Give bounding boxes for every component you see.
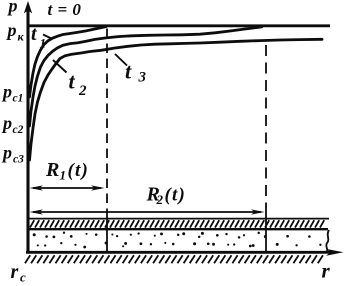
svg-text:1: 1 bbox=[60, 168, 67, 183]
svg-text:t: t bbox=[69, 69, 76, 94]
svg-text:(t): (t) bbox=[68, 160, 90, 181]
svg-text:p: p bbox=[1, 143, 12, 163]
svg-text:p: p bbox=[6, 20, 17, 40]
svg-text:с2: с2 bbox=[13, 124, 24, 136]
svg-text:p: p bbox=[1, 82, 12, 102]
svg-text:1: 1 bbox=[40, 36, 47, 51]
svg-text:(t): (t) bbox=[165, 185, 187, 206]
svg-text:с1: с1 bbox=[13, 93, 24, 105]
svg-text:3: 3 bbox=[138, 70, 147, 86]
svg-text:2: 2 bbox=[156, 192, 164, 207]
svg-text:к: к bbox=[18, 29, 25, 43]
svg-text:p: p bbox=[1, 113, 12, 133]
svg-text:с: с bbox=[20, 270, 26, 285]
svg-text:2: 2 bbox=[78, 83, 87, 99]
svg-text:с3: с3 bbox=[13, 154, 24, 166]
svg-text:t: t bbox=[125, 59, 132, 84]
svg-text:p: p bbox=[7, 0, 18, 15]
svg-text:r: r bbox=[322, 259, 331, 283]
svg-text:t = 0: t = 0 bbox=[48, 0, 82, 19]
svg-text:R: R bbox=[45, 159, 59, 181]
svg-text:r: r bbox=[11, 261, 19, 283]
